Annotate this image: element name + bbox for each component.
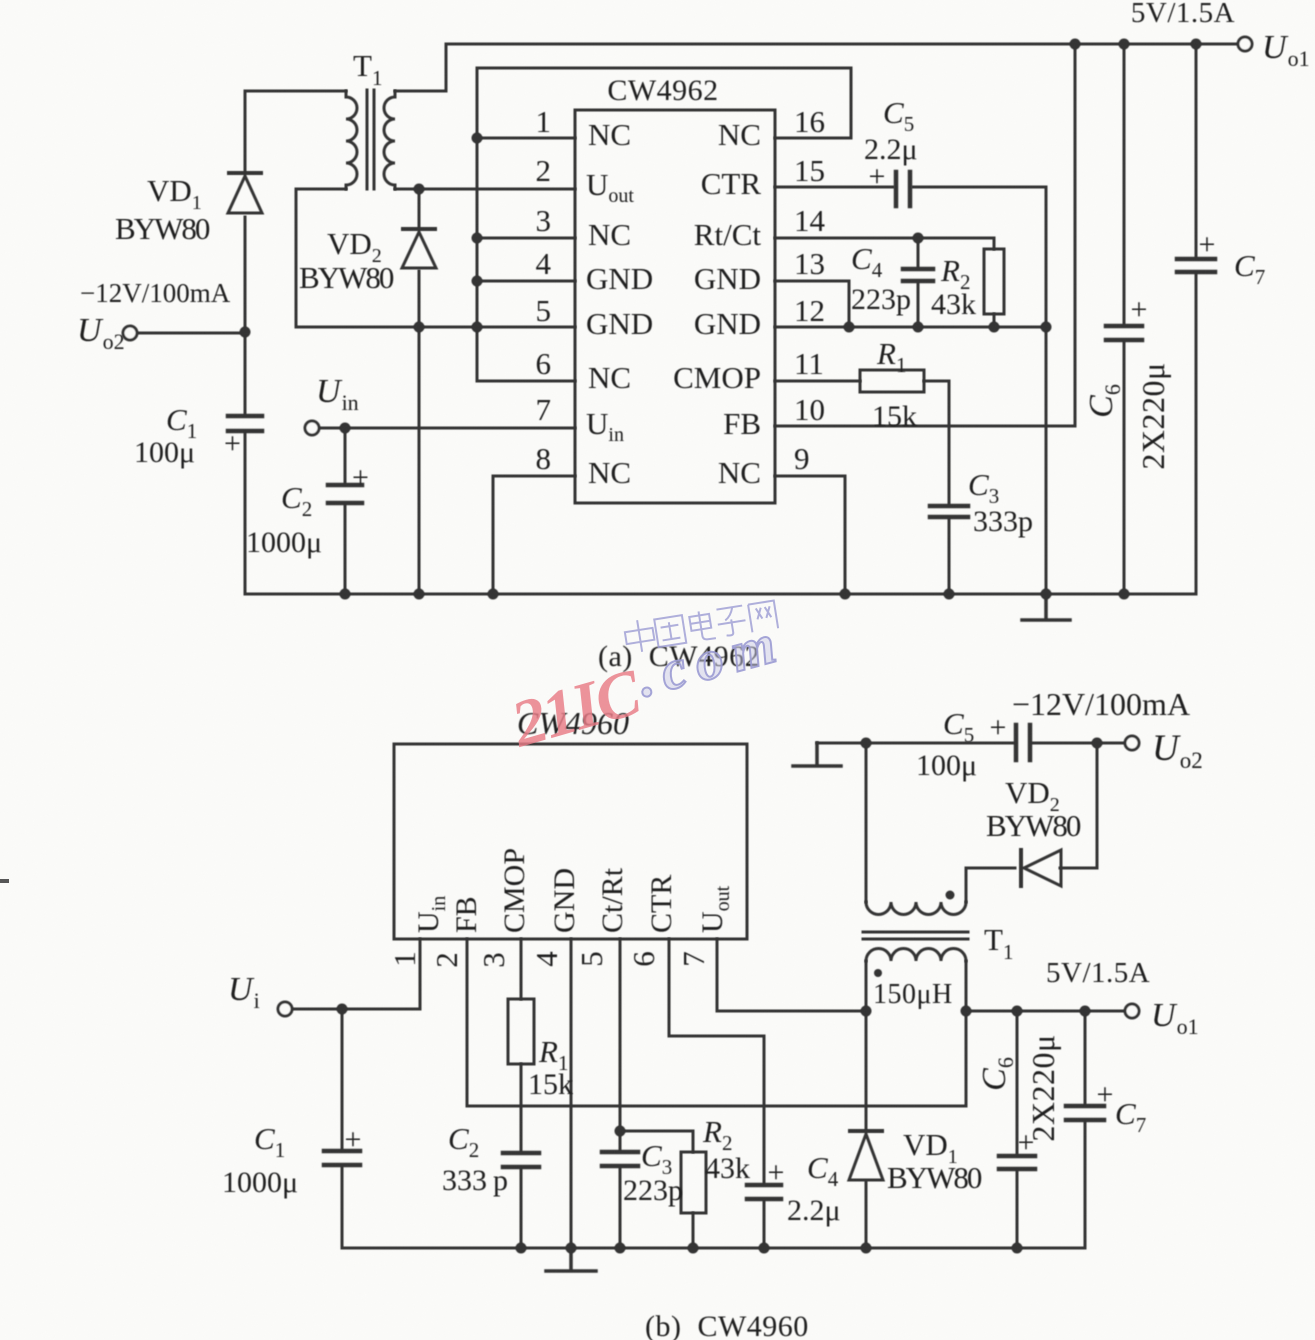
wire transformer T1 primary top to rail bbox=[395, 44, 446, 91]
node inductor left bbox=[861, 1006, 872, 1017]
wire C2b bottom to rail bbox=[520, 1168, 523, 1248]
wire C1b bottom lead bbox=[341, 1166, 344, 1248]
node bus pin3 bbox=[472, 233, 483, 244]
capacitor C1 plates bbox=[228, 416, 262, 431]
wire +5V top rail to Uo1 bbox=[446, 43, 1237, 46]
capacitor C4b plates bbox=[747, 1185, 781, 1199]
node rail C2 bbox=[340, 589, 351, 600]
terminal Uin bbox=[305, 421, 319, 435]
ground symbol top b bbox=[793, 743, 841, 766]
wire pin12 GND row bbox=[775, 326, 1046, 329]
node rail VD2 bbox=[414, 589, 425, 600]
wire T1 winding bottoms row pin2 side bbox=[395, 188, 575, 191]
op-amp U2 IC CW4960 body bbox=[394, 744, 747, 939]
resistor R1b body bbox=[508, 999, 534, 1064]
node rail GNDb bbox=[566, 1243, 577, 1254]
wire VD1 branch lower to Uo2 node bbox=[244, 217, 247, 332]
wire VD2 branch lower crossing Uin row to rail bbox=[418, 271, 421, 594]
wire Uo2 node to C1 top bbox=[244, 332, 247, 414]
wire pin13 stub down to pin12 row bbox=[775, 281, 849, 327]
wire stray mark left edge bbox=[0, 879, 9, 883]
ground symbol circuit a bbox=[1022, 594, 1070, 620]
op-amp U1 IC CW4962 body bbox=[575, 110, 775, 503]
node Uo2 junction b bbox=[1092, 738, 1103, 749]
wire VD2 branch upper bbox=[418, 189, 421, 227]
wire C6b bottom to rail bbox=[1016, 1170, 1019, 1248]
transformer T1b upper winding bbox=[866, 902, 966, 914]
transformer T1b core bbox=[863, 932, 968, 939]
wire R1 right to C3 top bbox=[924, 381, 949, 504]
wire VD2b anode to Uo2 node riser bbox=[1060, 743, 1097, 868]
capacitor C6b plates bbox=[999, 1156, 1035, 1169]
node rail C6 bottom bbox=[1119, 589, 1130, 600]
phase dot upper winding bbox=[946, 891, 955, 900]
wire T1b upper winding left lead to C5b node bbox=[865, 743, 868, 902]
resistor R2 body bbox=[984, 249, 1004, 314]
wire ground rail circuit b bbox=[342, 1247, 1085, 1250]
wire pin14 RtCt row to R2 top bbox=[775, 238, 994, 249]
terminal Uo2 b bbox=[1125, 736, 1139, 750]
ground symbol bottom b bbox=[546, 1248, 596, 1271]
wire ground rail bottom of circuit a bbox=[245, 593, 1196, 596]
wire C5 branch vertical down to rail bbox=[1045, 187, 1048, 594]
wire R1b to C2b bbox=[520, 1064, 523, 1152]
node rail C3 bbox=[944, 589, 955, 600]
node pin12 C4 bbox=[913, 322, 924, 333]
wire T1b lower winding right lead bbox=[965, 961, 968, 1011]
terminal Uo1 bbox=[1238, 37, 1252, 51]
capacitor C7 plates bbox=[1177, 259, 1215, 272]
wire C3b bottom to rail bbox=[619, 1167, 622, 1248]
wire C3 bottom lead to rail bbox=[948, 518, 951, 594]
wire R2b bottom to rail bbox=[692, 1213, 695, 1248]
capacitor C2 plates bbox=[328, 485, 362, 503]
wire pin3 CMOP to R1b bbox=[520, 939, 523, 999]
node bus pin5 bbox=[472, 322, 483, 333]
wire C2 branch top bbox=[344, 428, 347, 483]
wire pin10 FB row to right riser bbox=[775, 44, 1075, 426]
wire pin4 stub from bus bbox=[477, 280, 575, 283]
node rail ground a bbox=[1041, 589, 1052, 600]
wire T1b lower winding left lead bbox=[865, 961, 868, 1011]
capacitor C2b plates bbox=[503, 1153, 539, 1167]
wire pin15 CTR stub to C5 bbox=[775, 186, 893, 189]
wire C1 bottom to ground rail bbox=[244, 433, 247, 594]
wire left branch down to GND pin5 row bbox=[296, 189, 575, 327]
transformer T1 left winding bbox=[346, 91, 357, 189]
capacitor C1b plates bbox=[324, 1151, 360, 1165]
node pin12 R2 bbox=[989, 322, 1000, 333]
node pin12 C5drop bbox=[1041, 322, 1052, 333]
node rail pin8 bbox=[488, 589, 499, 600]
wire T1 secondary top to VD1 branch bbox=[245, 90, 346, 93]
node Ui C1b bbox=[337, 1004, 348, 1015]
node rail C6b bbox=[1012, 1243, 1023, 1254]
wire pin8 stub down to rail bbox=[493, 476, 575, 594]
node C5b left bbox=[861, 738, 872, 749]
watermark chinese characters outline bbox=[623, 599, 778, 654]
terminal Uo1 b bbox=[1125, 1004, 1139, 1018]
wire C5b right to Uo2 terminal bbox=[1031, 742, 1125, 745]
wire Uin input row to pin7 bbox=[319, 427, 575, 430]
capacitor C6 plates bbox=[1106, 326, 1142, 340]
node output C7b bbox=[1080, 1006, 1091, 1017]
wire C7b top lead bbox=[1084, 1011, 1087, 1105]
wire C6b top lead bbox=[1016, 1011, 1019, 1155]
wire pin3 stub from bus bbox=[477, 237, 575, 240]
diode VD2 bbox=[402, 229, 436, 268]
node C3b R2b tap bbox=[615, 1126, 626, 1137]
node pin12 pin13 bbox=[844, 322, 855, 333]
wire C7 branch top bbox=[1195, 44, 1198, 257]
node bus pin1 bbox=[472, 133, 483, 144]
wire pin16 link over IC bbox=[477, 68, 851, 138]
wire C6 branch top bbox=[1123, 44, 1126, 324]
node rail R2b bbox=[688, 1243, 699, 1254]
wire C6 branch bottom bbox=[1123, 341, 1126, 594]
node inductor right output bbox=[961, 1006, 972, 1017]
capacitor C5 plates bbox=[896, 172, 910, 206]
terminal Ui bbox=[278, 1002, 292, 1016]
diode VD2b horizontal bbox=[1021, 850, 1061, 886]
wire C4b bottom to rail bbox=[763, 1200, 766, 1248]
node VD2 GND row bbox=[414, 322, 425, 333]
node rail C2b bbox=[516, 1243, 527, 1254]
transformer T1 right winding bbox=[384, 91, 395, 189]
transformer T1 core bbox=[367, 90, 374, 189]
wire R2 bottom lead bbox=[993, 314, 996, 327]
node rail pin9 bbox=[840, 589, 851, 600]
wire VD1 branch upper bbox=[244, 91, 247, 172]
wire Uo2 terminal lead bbox=[137, 332, 245, 335]
node rail C6 bbox=[1119, 39, 1130, 50]
capacitor C7b plates bbox=[1066, 1106, 1104, 1120]
wire C4 bottom lead bbox=[917, 282, 920, 327]
wire ground stub to C5b left bbox=[817, 742, 1015, 745]
node Uin C2 bbox=[340, 423, 351, 434]
node rail C4b bbox=[759, 1243, 770, 1254]
wire C4 top lead bbox=[917, 238, 920, 267]
node bus pin4 bbox=[472, 276, 483, 287]
node rail C7 bbox=[1191, 39, 1202, 50]
wire pin11 CMOP stub to R1 bbox=[775, 380, 860, 383]
capacitor C3b plates bbox=[602, 1152, 638, 1166]
wire pin5 CtRt down to C3b bbox=[619, 939, 622, 1151]
wire C1b top lead bbox=[341, 1009, 344, 1150]
wire VD1b branch upper bbox=[865, 1011, 868, 1130]
wire C5 right to vertical drop bbox=[913, 186, 1046, 189]
wire pin9 stub down to rail bbox=[775, 476, 845, 594]
node rail FB bbox=[1070, 39, 1081, 50]
wire pin2 FB bus to output sense bbox=[467, 939, 966, 1106]
wire pin7 Uout to inductor left node bbox=[717, 939, 866, 1011]
wire C3b R2b top link bbox=[620, 1131, 693, 1152]
phase dot lower winding bbox=[874, 969, 882, 977]
node rail C3b bbox=[615, 1243, 626, 1254]
node C4 top tap bbox=[913, 233, 924, 244]
node output C6b bbox=[1012, 1006, 1023, 1017]
wire pin1 Uin lead to Ui terminal bbox=[292, 939, 420, 1009]
capacitor C3 plates bbox=[930, 506, 968, 517]
node rail VD1b bbox=[861, 1243, 872, 1254]
wire C4b branch upper bbox=[763, 1036, 766, 1184]
wire pin4 GND down to rail bbox=[570, 939, 573, 1248]
wire T1 left winding bottom bbox=[296, 188, 346, 191]
wire output node to Uo1 terminal bbox=[966, 1010, 1125, 1013]
wire T1b upper winding right lead bbox=[966, 868, 1015, 902]
transformer T1b lower winding bbox=[866, 948, 966, 961]
wire C2 branch bottom to rail bbox=[344, 504, 347, 594]
wire C7 branch bottom bbox=[1195, 273, 1198, 594]
wire NC bus vertical with pin6 stub bbox=[477, 68, 575, 381]
capacitor C5b plates bbox=[1016, 725, 1030, 760]
node VD2 top bbox=[414, 184, 425, 195]
wire pin6 CTR over to C4b bbox=[669, 939, 764, 1036]
diode VD1b bbox=[849, 1131, 883, 1180]
resistor R2b body bbox=[681, 1152, 706, 1213]
wire pin1 stub from bus bbox=[477, 137, 575, 140]
capacitor C4 plates bbox=[903, 269, 933, 281]
node Uo2 junction bbox=[240, 327, 251, 338]
resistor R1 body bbox=[860, 370, 924, 392]
terminal Uo2 bbox=[123, 326, 137, 340]
wire VD1b branch lower to rail bbox=[865, 1182, 868, 1248]
diode VD1 bbox=[228, 173, 262, 213]
wire C7b bottom to rail bbox=[1084, 1121, 1087, 1248]
